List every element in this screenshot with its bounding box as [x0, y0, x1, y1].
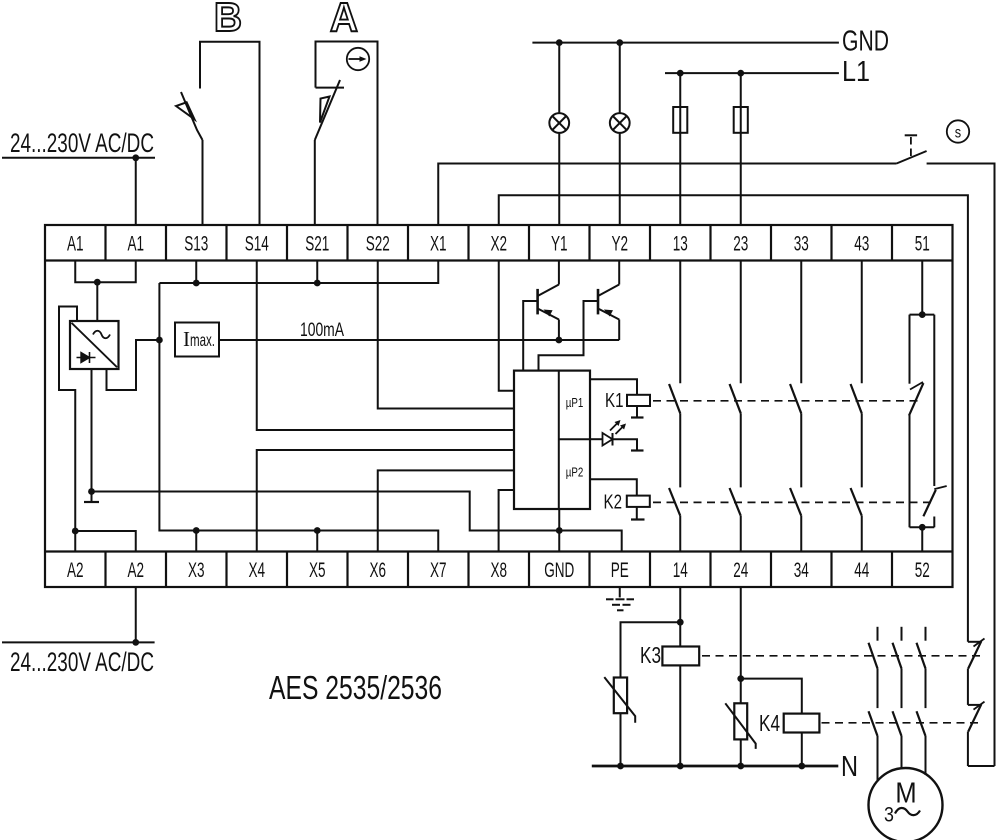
wire S21 stub [316, 261, 318, 284]
terminal S22 (top row) label [366, 231, 390, 255]
label 24...230V AC/DC (top supply) [10, 128, 154, 158]
actuator arrow A [320, 97, 330, 123]
contact K1 43-44 (NO) [851, 261, 862, 488]
svg-text:A1: A1 [67, 231, 84, 255]
svg-text:51: 51 [915, 231, 930, 255]
svg-text:14: 14 [673, 558, 688, 582]
contact K4 mirror (NC, feedback) [968, 702, 985, 766]
transistor Q1 (Y1 output) [538, 261, 559, 341]
wire B box top/right [200, 42, 260, 225]
label S (circle) [947, 120, 969, 142]
wire 14 to N [679, 587, 681, 766]
label K2 [604, 492, 623, 514]
terminal X1 (top row) label [430, 231, 447, 255]
wire 51 bracket top [910, 314, 935, 316]
wire feedback bottom join [968, 765, 995, 767]
terminal X8 (bottom row) label [490, 558, 507, 582]
wire uP2 to K2 coil [590, 479, 637, 495]
wire Y1 lamp branch [558, 43, 560, 225]
svg-text:S21: S21 [305, 231, 329, 255]
dashed link K3 contactor [702, 655, 980, 657]
terminal X5 (bottom row) label [309, 558, 326, 582]
contact K4 phase 3 (NO) [917, 711, 926, 775]
node 24 / N [737, 763, 744, 770]
wire uP to X6 [378, 470, 514, 551]
terminal S13 (top row) label [184, 231, 208, 255]
contact K1 33-34 (NO) [790, 261, 801, 488]
node 51 split [919, 311, 926, 318]
power supply U1 (AC/DC converter) [70, 321, 119, 369]
node L1-23 [737, 70, 744, 77]
wire A1 tap to power supply [96, 282, 98, 321]
label K3 [640, 642, 661, 668]
wire K1 coil return [631, 406, 644, 418]
node A1 bridge tap [94, 279, 101, 286]
wire PSU chassis leg [91, 369, 93, 502]
svg-text:Y1: Y1 [551, 231, 568, 255]
terminal Y2 (top row) label [611, 231, 628, 255]
label L1 [842, 56, 870, 88]
svg-text:B: B [214, 0, 242, 40]
svg-text:S14: S14 [245, 231, 269, 255]
svg-text:S13: S13 [184, 231, 208, 255]
wire S13 stub [195, 261, 197, 284]
node bottom supply junction [132, 639, 139, 646]
svg-text:34: 34 [794, 558, 809, 582]
terminal 44 (bottom row) label [854, 558, 869, 582]
contact K3 mirror (NC, feedback) [968, 639, 985, 705]
wire 24 branch to K4 [741, 679, 802, 714]
svg-text:S22: S22 [366, 231, 390, 255]
svg-text:PE: PE [611, 558, 629, 582]
label K1 [605, 390, 624, 412]
wire top supply rail [2, 157, 155, 159]
wire B to terminal S13 [202, 140, 204, 225]
net N rail [592, 765, 839, 768]
safety relay module AES 2535/2536 outline [45, 225, 953, 587]
node PSU/Imax junction [156, 337, 163, 344]
svg-text:23: 23 [733, 231, 748, 255]
motor M1 (3~) [869, 768, 943, 840]
contact K2 13-14 (NO) [669, 488, 680, 552]
svg-text:24: 24 [733, 558, 748, 582]
wire switch S to right edge [927, 164, 995, 767]
node S21 tap [314, 280, 321, 287]
varistor R2 [725, 703, 755, 749]
node K4 / N [798, 763, 805, 770]
LED V1 (diagnostic) [590, 420, 626, 446]
node GND-Y2 [616, 39, 623, 46]
terminal A2 (bottom row) label [127, 558, 144, 582]
terminal S21 (top row) label [305, 231, 329, 255]
wire A to terminal S21 [314, 140, 316, 225]
wire supply to terminal A1 [135, 158, 137, 225]
wire X2 to uP [499, 261, 514, 391]
node 24 branch [737, 675, 744, 682]
chassis 0V bar [84, 501, 99, 503]
label GND [842, 26, 889, 58]
label 24...230V AC/DC (bottom supply) [10, 647, 154, 677]
contact K2 23-24 (NO) [730, 488, 741, 552]
svg-text:AES 2535/2536: AES 2535/2536 [269, 670, 442, 707]
wire varistor R1 to N [620, 713, 622, 766]
wire chassis net to GND/PE [92, 492, 622, 552]
wire power supply loop to A2 [59, 307, 77, 552]
wire 23 branch [740, 73, 742, 225]
current limiter Imax box [175, 323, 219, 357]
svg-text:A: A [330, 0, 358, 40]
wire PE stub [619, 587, 621, 597]
terminal 14 (bottom row) label [673, 558, 688, 582]
label B [214, 0, 242, 40]
wire K2 coil return [631, 507, 645, 520]
svg-text:max.: max. [190, 330, 215, 350]
contact K3 phase 3 (NO) [917, 627, 926, 708]
wire X1 to start switch [438, 164, 896, 226]
actuator arrow B [176, 102, 195, 119]
terminal X7 (bottom row) label [430, 558, 447, 582]
svg-text:K4: K4 [759, 710, 780, 736]
svg-text:X7: X7 [430, 558, 447, 582]
wire Y2 lamp branch [619, 43, 621, 225]
label K4 [759, 710, 780, 736]
wire 14 branch to varistor [621, 622, 681, 677]
wire left distribution drop [159, 283, 438, 552]
contact K1 51-52 (NC) [909, 315, 923, 528]
wire 52 stub [921, 527, 923, 551]
label A [330, 0, 358, 40]
terminal A2 (bottom row) label [67, 558, 84, 582]
wire X2 feedback riser [499, 195, 968, 642]
dashed link K1 contacts [653, 400, 920, 402]
svg-text:I: I [183, 327, 190, 351]
wire 100mA line [219, 339, 619, 341]
node 52 join [919, 524, 926, 531]
terminal S14 (top row) label [245, 231, 269, 255]
node GND terminal tap [556, 527, 563, 534]
wire S14 to uP [257, 261, 514, 431]
svg-text:X5: X5 [309, 558, 326, 582]
terminal A1 (top row) label [67, 231, 84, 255]
terminal X2 (top row) label [490, 231, 507, 255]
svg-text:K1: K1 [605, 390, 624, 412]
transistor Q2 (Y2 output) [598, 261, 619, 341]
wire S22 to uP [378, 261, 514, 409]
svg-text:µP2: µP2 [566, 466, 584, 480]
net L1 rail [665, 72, 839, 74]
svg-text:µP1: µP1 [566, 397, 584, 411]
svg-text:s: s [955, 124, 961, 142]
switch S manual actuator [905, 135, 917, 157]
svg-text:X8: X8 [490, 558, 507, 582]
node A2 bridge tap [72, 528, 79, 535]
svg-text:GND: GND [842, 26, 889, 58]
wire 51 feed [921, 261, 923, 315]
svg-text:K3: K3 [640, 642, 661, 668]
contact K4 phase 1 (NO) [869, 711, 878, 781]
microprocessor unit U2 (uP1/uP2) [514, 371, 590, 509]
wire 51 bracket bottom [910, 526, 935, 528]
lamp H2 (on Y2) [610, 113, 630, 133]
terminal A1 (top row) label [127, 231, 144, 255]
wire A box top/right [316, 42, 378, 226]
switch contact A blade [315, 80, 340, 140]
terminal 34 (bottom row) label [794, 558, 809, 582]
contact K3 phase 1 (NO) [869, 627, 878, 708]
svg-text:X6: X6 [369, 558, 386, 582]
terminal X3 (bottom row) label [188, 558, 205, 582]
wire uP to X4 [257, 450, 514, 552]
label N [841, 751, 858, 783]
relay coil K1 [627, 395, 650, 406]
svg-text:24...230V AC/DC: 24...230V AC/DC [10, 128, 154, 158]
terminal 51 (top row) label [915, 231, 930, 255]
switch contact B (NC blade) [181, 92, 203, 140]
svg-text:43: 43 [854, 231, 869, 255]
terminal X4 (bottom row) label [248, 558, 265, 582]
node X3 tap [193, 527, 200, 534]
fuse F2 (on 23) [734, 107, 748, 133]
svg-text:A2: A2 [127, 558, 144, 582]
wire X3 stub [195, 531, 197, 552]
wire PSU output to current limiter [107, 340, 160, 390]
svg-text:A2: A2 [67, 558, 84, 582]
wire X5 stub [316, 531, 318, 552]
wire bottom supply rail [2, 641, 155, 643]
dashed link K2 contacts [653, 501, 934, 503]
terminal GND (bottom row) label [544, 558, 574, 582]
svg-text:X2: X2 [490, 231, 507, 255]
wire A2 to bottom supply [135, 587, 137, 642]
svg-text:52: 52 [915, 558, 930, 582]
switch contact A fixed seat [316, 87, 345, 89]
terminal PE (bottom row) label [611, 558, 629, 582]
wire uP1 to K1 coil [590, 379, 637, 395]
svg-text:L1: L1 [842, 56, 870, 88]
node T1 emitter junction [556, 337, 563, 344]
terminal X6 (bottom row) label [369, 558, 386, 582]
wire uP to X8 [499, 490, 514, 552]
relay coil K2 [627, 496, 650, 507]
node S13 tap [193, 280, 200, 287]
wire LED return [613, 439, 644, 450]
relay coil K4 [784, 714, 820, 733]
switch S blade (start button) [897, 151, 927, 164]
terminal Y1 (top row) label [551, 231, 568, 255]
terminal 13 (top row) label [673, 231, 688, 255]
top terminal row divider line [45, 225, 953, 261]
bottom terminal row divider line [45, 552, 953, 588]
terminal 24 (bottom row) label [733, 558, 748, 582]
svg-text:24...230V AC/DC: 24...230V AC/DC [10, 647, 154, 677]
ground PE (earth symbol) [606, 599, 634, 610]
wire A2-A2 bridge [75, 531, 136, 552]
node 14 branch [677, 619, 684, 626]
node GND-Y1 [556, 39, 563, 46]
node supply/A1 junction [132, 154, 139, 161]
contact K2 33-34 (NO) [790, 488, 801, 552]
svg-text:13: 13 [673, 231, 688, 255]
actuator symbol A (circle with arrow) [347, 48, 369, 70]
contact K2 43-44 (NO) [851, 488, 862, 552]
svg-text:3: 3 [884, 803, 894, 827]
svg-text:100mA: 100mA [300, 320, 344, 341]
svg-text:GND: GND [544, 558, 574, 582]
wire uP ground to GND terminal [558, 509, 560, 552]
node L1-13 [677, 70, 684, 77]
svg-text:44: 44 [854, 558, 869, 582]
svg-text:X3: X3 [188, 558, 205, 582]
terminal 23 (top row) label [733, 231, 748, 255]
wire 13 branch [679, 73, 681, 225]
label AES 2535/2536 [269, 670, 442, 707]
net GND rail [532, 42, 839, 44]
label 100mA [300, 320, 344, 341]
terminal 43 (top row) label [854, 231, 869, 255]
dashed link K4 contactor [822, 722, 981, 724]
lamp H1 (on Y1) [549, 113, 569, 133]
terminal 33 (top row) label [794, 231, 809, 255]
varistor R1 [604, 677, 635, 723]
svg-text:K2: K2 [604, 492, 623, 514]
svg-text:X1: X1 [430, 231, 447, 255]
contact K4 phase 2 (NO) [893, 711, 902, 768]
contact K1 23-24 (NO) [730, 261, 741, 488]
wire S13-S21-X1 bridge [159, 261, 438, 284]
fuse F1 (on 13) [673, 107, 687, 133]
svg-text:33: 33 [794, 231, 809, 255]
contact K1 13-14 (NO) [669, 261, 680, 488]
wire K4 coil to N [801, 733, 803, 767]
svg-text:Y2: Y2 [611, 231, 628, 255]
relay coil K3 [662, 647, 699, 666]
terminal 52 (bottom row) label [915, 558, 930, 582]
node X5 tap [314, 527, 321, 534]
svg-text:X4: X4 [248, 558, 265, 582]
svg-text:N: N [841, 751, 858, 783]
wire Q2 base from uP [539, 301, 599, 371]
node chassis net tap [88, 488, 95, 495]
wire Q1 base from uP [523, 301, 537, 371]
contact K3 phase 2 (NO) [893, 627, 902, 708]
svg-text:M: M [895, 776, 916, 809]
node 14 / N [677, 763, 684, 770]
node varistor R1 / N [617, 763, 624, 770]
wire A1-A1 bridge [75, 261, 136, 283]
contact K2 51-52 (NC) [923, 315, 946, 528]
svg-text:A1: A1 [127, 231, 144, 255]
wire 24 to N [740, 587, 742, 766]
